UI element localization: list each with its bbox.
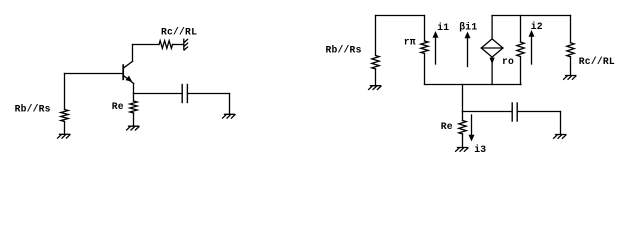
svg-text:i2: i2 bbox=[531, 21, 543, 32]
dependent source current arrowhead (down) bbox=[490, 58, 494, 63]
dependent current source beta-i1 diamond bbox=[481, 39, 503, 57]
wire: emitter node down-stub bbox=[462, 85, 464, 112]
ground: right of capacitor C2 bbox=[554, 135, 566, 139]
ground: below Rb//Rs (left circuit) bbox=[58, 134, 70, 138]
wire: Rb//Rs to ground (left circuit) bbox=[64, 122, 66, 135]
current arrow beta-i1 head bbox=[465, 32, 471, 39]
transistor Q1 emitter stroke bbox=[123, 75, 133, 83]
wire: Re to ground (left circuit) bbox=[133, 113, 135, 126]
wire: Rc//RL to ground (right circuit) bbox=[570, 57, 572, 76]
wire: right corner down to ground bbox=[229, 94, 231, 115]
wire: top-right run (collector node) bbox=[492, 15, 570, 17]
resistor Rb//Rs (left circuit) bbox=[61, 110, 68, 122]
capacitor C2 right plate bbox=[516, 103, 518, 121]
wire: Rb//Rs branch vertical (right circuit) bbox=[375, 16, 377, 56]
wire: Rc//RL to output ground bbox=[173, 44, 184, 46]
wire: ro branch top vertical bbox=[520, 16, 522, 43]
resistor Re (right circuit) bbox=[459, 121, 466, 134]
capacitor C2 left plate bbox=[511, 103, 513, 121]
transistor Q1 base bar bbox=[122, 65, 124, 79]
wire: emitter node down to Re bbox=[133, 94, 135, 102]
svg-text:Rc//RL: Rc//RL bbox=[579, 56, 615, 67]
wire: rpi down to emitter node bbox=[424, 54, 426, 85]
current arrow beta-i1 shaft bbox=[467, 37, 469, 67]
resistor Re (left circuit) bbox=[130, 101, 137, 113]
resistor Rb//Rs (right circuit) bbox=[372, 56, 379, 69]
wire: capacitor to right corner (right circuit) bbox=[517, 111, 560, 113]
wire: dependent source to emitter node bbox=[491, 57, 493, 84]
current arrow i2 shaft bbox=[531, 35, 533, 64]
wire: Re to ground (right circuit) bbox=[462, 134, 464, 148]
svg-text:ro: ro bbox=[502, 56, 514, 67]
svg-text:Rb//Rs: Rb//Rs bbox=[326, 44, 362, 55]
ground: below Rc//RL (right circuit) bbox=[564, 76, 576, 80]
svg-text:i3: i3 bbox=[474, 144, 486, 155]
svg-text:Re: Re bbox=[441, 121, 453, 132]
current arrow i1 head bbox=[433, 31, 439, 38]
svg-text:i1: i1 bbox=[437, 22, 449, 33]
wire: emitter vertical down bbox=[133, 83, 135, 93]
svg-text:Rc//RL: Rc//RL bbox=[161, 26, 197, 37]
wire: collector vertical up bbox=[132, 45, 134, 62]
svg-text:βi1: βi1 bbox=[459, 21, 477, 32]
capacitor C1 right plate bbox=[186, 85, 188, 103]
node: emitter node wire (right circuit) bbox=[425, 84, 522, 86]
wire: corner down to ground (right circuit) bbox=[560, 112, 562, 135]
transistor Q1 emitter arrowhead bbox=[126, 76, 132, 81]
wire: lower run to capacitor bbox=[463, 111, 513, 113]
ground: output side ground (sideways, left circuit) bbox=[184, 39, 188, 50]
capacitor C1 left plate bbox=[181, 85, 183, 103]
ground: below Re (right circuit) bbox=[456, 148, 468, 152]
wire: down to dependent source bbox=[491, 16, 493, 40]
resistor ro bbox=[517, 42, 524, 57]
wire: capacitor to right corner bbox=[187, 93, 229, 95]
wire: rpi branch top vertical bbox=[424, 16, 426, 42]
ground: right of capacitor (left circuit) bbox=[223, 114, 235, 118]
transistor Q1 collector stroke bbox=[123, 61, 132, 68]
svg-text:Re: Re bbox=[112, 101, 124, 112]
current arrow i2 head bbox=[529, 30, 535, 37]
ground: below Rb//Rs (right circuit) bbox=[369, 86, 381, 90]
wire: Rb//Rs branch vertical (left circuit) bbox=[64, 74, 66, 110]
wire: Rc//RL branch vertical (right circuit) bbox=[570, 16, 572, 43]
current arrow i1 shaft bbox=[435, 36, 437, 64]
resistor rpi bbox=[421, 41, 428, 53]
ground: below Re (left circuit) bbox=[127, 126, 139, 130]
wire: junction down to Re (right circuit) bbox=[462, 112, 464, 121]
wire: base wire of Q1 (left circuit) bbox=[65, 73, 123, 75]
wire: Rb//Rs to ground (right circuit) bbox=[375, 69, 377, 86]
wire: ro down to emitter node bbox=[520, 57, 522, 85]
current arrow i3 shaft bbox=[471, 115, 473, 137]
svg-text:rπ: rπ bbox=[404, 36, 416, 47]
wire: collector top run to Rc//RL bbox=[133, 44, 160, 46]
svg-text:Rb//Rs: Rb//Rs bbox=[15, 104, 51, 115]
current arrow i3 head bbox=[469, 135, 475, 142]
resistor Rc//RL (left circuit, horizontal) bbox=[159, 41, 172, 49]
resistor Rc//RL (right circuit) bbox=[567, 43, 574, 57]
node: emitter node wire to capacitor bbox=[134, 93, 183, 95]
wire: top-left run (base node, right circuit) bbox=[376, 15, 425, 17]
